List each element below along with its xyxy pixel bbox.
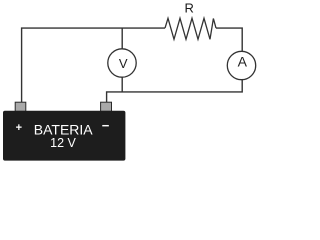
- svg-text:V: V: [119, 56, 128, 71]
- wire resistor right lead to ammeter top: [216, 28, 242, 51]
- svg-text:R: R: [185, 1, 194, 16]
- battery + terminal block: [15, 102, 26, 111]
- battery - terminal block: [101, 102, 112, 111]
- wire ammeter bottom to bottom rail and to battery - terminal: [107, 80, 243, 103]
- svg-text:+: +: [16, 122, 22, 134]
- svg-text:12 V: 12 V: [50, 136, 76, 150]
- battery body BATERIA 12 V: [3, 111, 125, 161]
- ammeter A (circle): [227, 51, 255, 79]
- resistor R (zigzag): [165, 18, 216, 39]
- svg-text:−: −: [102, 118, 110, 133]
- wire voltmeter bottom down to bottom rail: [121, 77, 123, 92]
- wire top node down to voltmeter top: [121, 28, 123, 49]
- wire battery + terminal up and across top to resistor left lead: [22, 28, 165, 103]
- voltmeter V (circle): [108, 49, 136, 77]
- svg-text:A: A: [238, 53, 248, 69]
